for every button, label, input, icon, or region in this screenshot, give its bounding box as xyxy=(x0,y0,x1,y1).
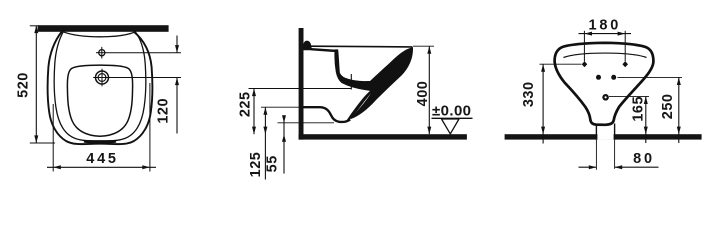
330 extension line (fixing hole level) xyxy=(540,63,582,65)
400 dimension line xyxy=(428,46,430,134)
120 bottom extension line (drain) xyxy=(111,77,182,79)
120 lower dimension line segment xyxy=(176,78,178,134)
dimension 250 xyxy=(618,77,683,143)
svg-text:330: 330 xyxy=(521,81,537,107)
datum level ±0.00 xyxy=(432,103,473,134)
445 left extension line xyxy=(52,104,54,172)
dimension 180 xyxy=(579,18,632,62)
125 bottom arrowhead xyxy=(263,127,267,135)
front rim inner arc xyxy=(564,53,647,57)
520 dimension line xyxy=(35,26,37,144)
drain pipe left edge xyxy=(595,124,597,140)
wall section (side) xyxy=(299,28,304,140)
520 bottom extension line xyxy=(30,142,55,144)
svg-text:225: 225 xyxy=(237,91,253,117)
120 top extension line (tap hole) xyxy=(108,52,182,54)
bowl outer outline xyxy=(48,32,153,145)
drain horizontal tick xyxy=(93,77,111,79)
svg-text:80: 80 xyxy=(633,151,655,167)
dimension 125 xyxy=(248,107,303,179)
250 bottom arrowhead xyxy=(677,127,681,135)
drain vertical tick xyxy=(101,69,103,87)
svg-text:520: 520 xyxy=(15,72,31,98)
80 right extension line xyxy=(614,140,616,169)
80 right dimension line segment xyxy=(615,166,659,168)
180 left arrowhead xyxy=(584,32,592,36)
225 dimension line xyxy=(253,89,255,135)
445 left arrowhead xyxy=(53,165,61,169)
80 left extension line xyxy=(595,140,597,170)
basin opening outline xyxy=(67,65,132,136)
floor section (side) xyxy=(299,134,467,139)
55 dimension line xyxy=(283,117,285,174)
80 left arrowhead xyxy=(589,165,597,169)
drain outer circle xyxy=(96,71,109,84)
445 dimension line xyxy=(47,166,156,168)
180 right extension line xyxy=(624,31,626,62)
trap right wedge xyxy=(344,83,381,123)
225 bottom arrowhead xyxy=(252,127,256,135)
dimension 330 xyxy=(521,64,582,143)
120 down arrowhead xyxy=(175,45,179,53)
fixing hole left (diamond) xyxy=(582,61,588,67)
bowl rim inner line xyxy=(54,32,146,141)
drain hole (front) xyxy=(602,94,609,101)
dimension 55 xyxy=(265,115,335,173)
120 upper dimension line segment xyxy=(176,36,178,53)
125 dimension line xyxy=(264,107,266,179)
120 up arrowhead xyxy=(175,78,179,86)
165 extension line (drain level) xyxy=(609,95,649,97)
dimension 445 xyxy=(47,83,156,172)
180 right arrowhead xyxy=(618,32,626,36)
wall bar (plan) xyxy=(38,25,169,32)
250 top arrowhead xyxy=(677,77,681,85)
80 right arrowhead xyxy=(615,165,623,169)
drain hole center xyxy=(605,96,607,98)
445 right arrowhead xyxy=(142,165,150,169)
330 bottom arrowhead xyxy=(541,127,545,135)
tap hole circle xyxy=(99,50,105,56)
dimension 80 xyxy=(579,140,659,170)
drain pipe through floor xyxy=(596,124,614,140)
55 bottom arrowhead xyxy=(282,134,286,142)
drain pipe gap in floor xyxy=(597,134,613,140)
body section (basin bottom, underside sweep, front nose) xyxy=(335,48,413,119)
bowl bottom shadow arc xyxy=(84,141,116,142)
svg-text:400: 400 xyxy=(415,81,431,107)
drain inner circle xyxy=(98,74,106,82)
tap hole horizontal tick xyxy=(96,52,108,54)
dimension 120 xyxy=(108,36,182,134)
drain hole ring xyxy=(602,94,609,101)
520 top extension line xyxy=(30,25,39,27)
tap hole crosshair xyxy=(96,47,108,59)
svg-text:125: 125 xyxy=(248,152,264,178)
55 top arrowhead xyxy=(282,115,286,123)
330 top arrowhead xyxy=(541,64,545,72)
drain pipe right edge xyxy=(614,124,616,140)
floor bar (front) xyxy=(505,134,702,139)
330 dimension line xyxy=(542,64,544,143)
250 extension line (mounting dot level) xyxy=(618,76,683,78)
svg-text:250: 250 xyxy=(660,94,676,120)
mounting dot left xyxy=(596,75,601,80)
55 extension line (trap bottom level) xyxy=(278,122,335,124)
back rim bump at wall xyxy=(303,41,311,51)
520 bottom arrowhead xyxy=(34,135,38,143)
165 top arrowhead xyxy=(644,96,648,104)
445 right extension line xyxy=(149,83,151,172)
mounting dot right xyxy=(611,75,616,80)
125 extension line (trap top level) xyxy=(261,106,303,108)
front silhouette xyxy=(555,43,654,125)
80 left dimension line segment xyxy=(579,166,597,168)
180 left extension line xyxy=(583,31,585,62)
svg-text:180: 180 xyxy=(589,18,622,34)
drain tick (side view) xyxy=(350,74,352,90)
rim top edge line xyxy=(311,45,412,48)
400 top extension line xyxy=(413,45,434,47)
dimension 225 xyxy=(237,89,351,135)
520 top arrowhead xyxy=(34,26,38,34)
rim lower edge line xyxy=(311,49,337,51)
225 top arrowhead xyxy=(252,89,256,97)
dimension 165 xyxy=(609,96,649,143)
400 top arrowhead xyxy=(427,46,431,54)
125 top arrowhead xyxy=(263,107,267,115)
fixing hole right (diamond) xyxy=(622,61,628,67)
svg-text:±0.00: ±0.00 xyxy=(432,103,471,120)
dimension 400 xyxy=(413,46,434,134)
400 bottom arrowhead xyxy=(427,127,431,135)
165 bottom arrowhead xyxy=(644,127,648,135)
tap hole vertical tick xyxy=(101,47,103,59)
datum triangle xyxy=(442,119,460,134)
250 dimension line xyxy=(678,77,680,143)
svg-text:445: 445 xyxy=(86,151,119,167)
svg-text:55: 55 xyxy=(265,155,281,172)
225 extension line (drain level) xyxy=(249,88,352,90)
datum underline xyxy=(432,117,473,119)
trap / foot outline xyxy=(303,107,350,122)
165 dimension line xyxy=(645,96,647,143)
drain crosshair xyxy=(93,69,111,87)
dimension 520 xyxy=(15,26,55,144)
svg-text:165: 165 xyxy=(631,96,647,122)
180 dimension line xyxy=(579,33,632,35)
svg-text:120: 120 xyxy=(155,98,171,124)
